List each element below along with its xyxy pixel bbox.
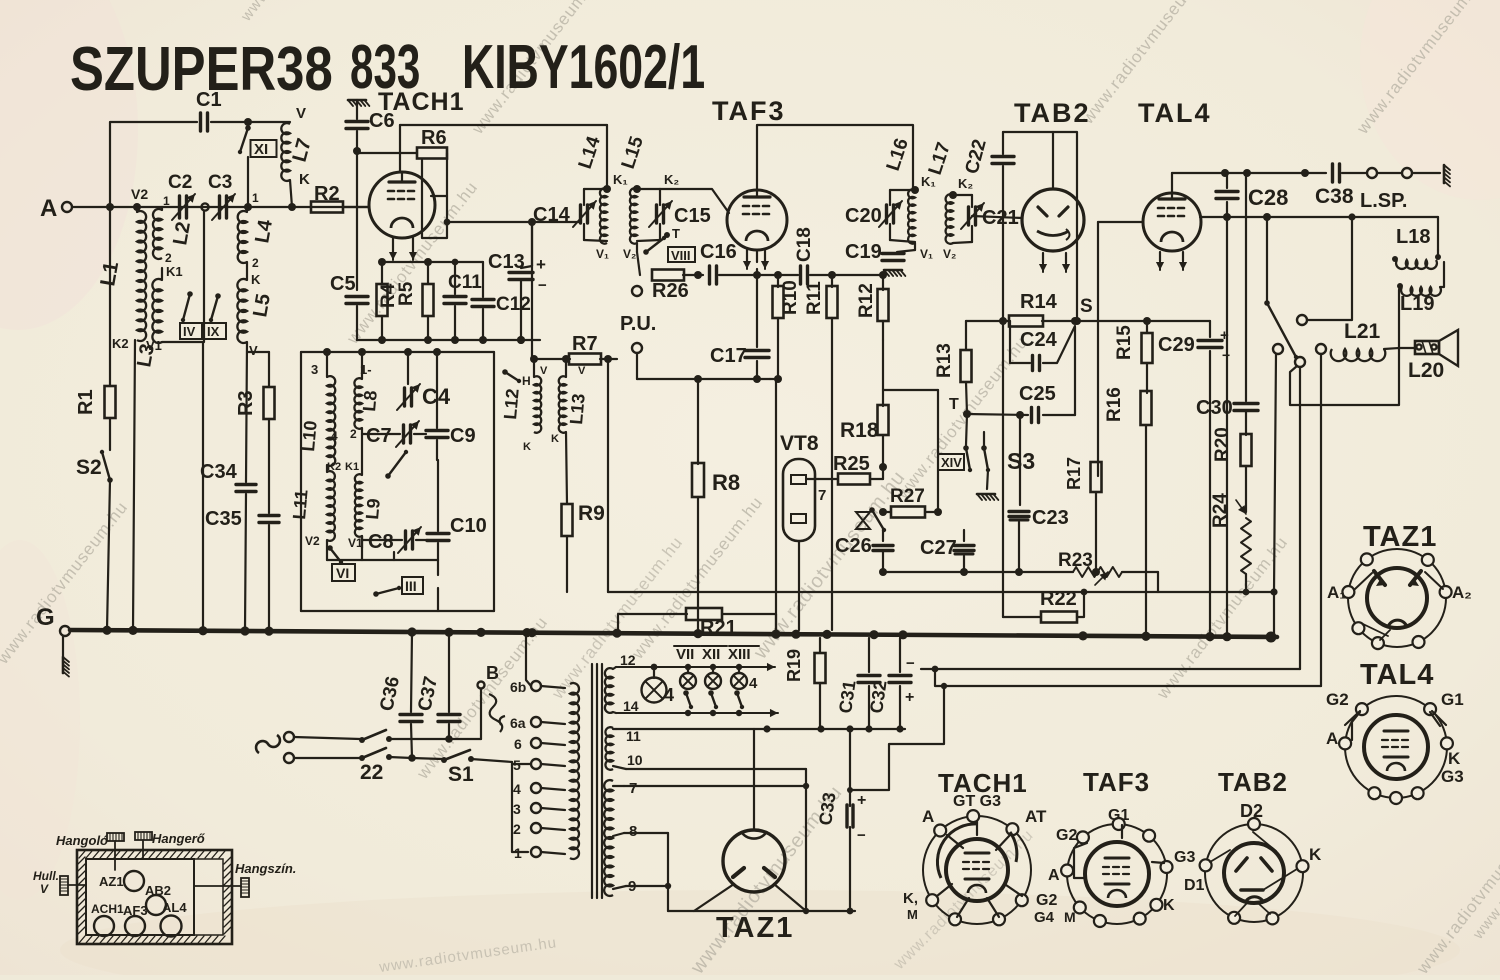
wire R6 line: [357, 152, 417, 154]
node T: [643, 226, 680, 255]
capacitor C16: [700, 241, 782, 284]
svg-text:C29: C29: [1158, 334, 1195, 356]
terminal 1: [514, 845, 565, 861]
svg-text:A₂: A₂: [1452, 583, 1472, 602]
wire TAL4 arrows: [1156, 252, 1187, 270]
svg-text:III: III: [405, 578, 417, 594]
switch X: [856, 507, 886, 532]
svg-text:AL4: AL4: [162, 900, 187, 915]
switch S2: [76, 450, 113, 630]
svg-text:2: 2: [165, 251, 172, 265]
wire L1 to bus: [133, 340, 135, 630]
svg-text:V: V: [40, 882, 49, 896]
wire S1 to terminals: [512, 762, 530, 852]
svg-text:R12: R12: [856, 283, 877, 318]
svg-text:14: 14: [623, 698, 639, 714]
svg-text:K2: K2: [112, 336, 129, 351]
svg-text:R26: R26: [652, 280, 689, 302]
svg-text:C19: C19: [845, 241, 882, 263]
svg-text:M: M: [1064, 909, 1076, 925]
svg-text:3: 3: [311, 362, 318, 377]
wire cathode network: [382, 238, 428, 262]
svg-text:C20: C20: [845, 205, 882, 227]
wire TAZ1 leads: [694, 884, 806, 911]
svg-text:R17: R17: [1064, 457, 1084, 490]
ground bus: [70, 626, 1277, 643]
capacitor C12: [428, 259, 531, 340]
wire bottom frame b: [935, 669, 1321, 689]
svg-text:+: +: [536, 255, 546, 274]
resistor R16: [1104, 387, 1152, 638]
terminal 6a: [510, 715, 565, 731]
svg-text:B: B: [486, 663, 499, 683]
svg-text:C14: C14: [533, 204, 571, 226]
capacitor C21 variable: [953, 195, 1019, 243]
terminal A: [40, 195, 107, 222]
svg-text:C30: C30: [1196, 397, 1233, 419]
capacitor C10: [427, 460, 487, 560]
resistor R21: [618, 608, 776, 639]
svg-text:K: K: [551, 433, 559, 445]
resistor R18: [840, 340, 889, 467]
inductor L2: [153, 207, 195, 279]
capacitor C26: [835, 530, 893, 576]
capacitor C18: [794, 227, 815, 284]
svg-text:1: 1: [514, 845, 522, 861]
switch speaker contact mid: [1295, 357, 1305, 669]
capacitor C13 electrolytic: [488, 222, 547, 344]
wire osc top rail: [301, 348, 494, 356]
transformer core: [592, 664, 602, 898]
capacitor C34: [200, 461, 256, 630]
socket TAL4 inner wires: [1352, 712, 1440, 740]
wire R18 top: [883, 390, 938, 512]
wire R3 branch: [247, 352, 269, 387]
svg-text:L2: L2: [169, 220, 195, 247]
wire R17 top: [1098, 222, 1143, 476]
capacitor C14 variable: [533, 189, 607, 241]
wire L21 loop: [1290, 348, 1399, 405]
svg-text:XIII: XIII: [728, 646, 751, 663]
svg-text:10: 10: [627, 752, 643, 768]
inductor L1: [96, 186, 148, 351]
inductor L17: [925, 140, 974, 261]
wire PU line to bus: [770, 379, 776, 630]
svg-text:22: 22: [360, 761, 383, 784]
wire 9 lead: [613, 883, 671, 889]
svg-text:P.U.: P.U.: [620, 313, 656, 335]
svg-text:K1: K1: [166, 264, 183, 279]
svg-text:C17: C17: [710, 345, 747, 367]
socket TAF3 label: [1083, 767, 1150, 797]
wire TAB2 top: [1003, 132, 1077, 321]
svg-text:C11: C11: [448, 272, 482, 293]
svg-text:−: −: [857, 827, 866, 844]
svg-text:2: 2: [350, 427, 357, 441]
capacitor C27: [920, 530, 974, 576]
capacitor C7 variable: [362, 421, 426, 447]
svg-text:K₂: K₂: [958, 176, 973, 191]
svg-text:S1: S1: [448, 763, 474, 786]
transformer primary: [570, 683, 579, 859]
svg-text:V₁: V₁: [596, 247, 609, 261]
svg-text:L13: L13: [566, 393, 589, 426]
switch osc: [385, 450, 408, 479]
lamp VII: [674, 646, 700, 689]
wire C30 top: [1245, 173, 1247, 401]
resistor R6: [417, 127, 447, 159]
wire mid long: [608, 589, 1087, 596]
svg-text:L5: L5: [249, 292, 275, 319]
switch VIII box: [668, 247, 695, 263]
svg-text:1: 1: [163, 194, 170, 208]
svg-text:K: K: [523, 441, 531, 453]
shaft Hull: [33, 869, 86, 896]
knob ACH1: [91, 902, 124, 936]
wire C28 to bus: [1226, 217, 1228, 638]
wire A line: [106, 203, 369, 342]
svg-text:R1: R1: [75, 389, 97, 415]
capacitor C32: [866, 638, 915, 729]
svg-text:V2: V2: [305, 534, 320, 548]
svg-text:V₂: V₂: [623, 247, 636, 261]
winding 11 10: [605, 727, 642, 770]
svg-text:−: −: [906, 655, 915, 672]
svg-text:7: 7: [629, 780, 637, 797]
svg-text:K₂: K₂: [664, 172, 679, 187]
svg-text:2: 2: [513, 821, 521, 837]
svg-text:7: 7: [818, 487, 826, 504]
switch III: [373, 577, 423, 597]
svg-text:R6: R6: [421, 127, 447, 149]
svg-text:K: K: [1448, 749, 1461, 768]
socket TAB2 label: [1218, 767, 1288, 797]
svg-text:C7: C7: [366, 425, 392, 447]
terminal 6b: [510, 679, 565, 695]
wire grid line right: [778, 271, 887, 279]
svg-text:K,: K,: [903, 890, 918, 907]
speaker L20: [1399, 330, 1458, 382]
resistor R14: [1009, 291, 1058, 327]
svg-text:L21: L21: [1344, 320, 1381, 343]
resistor R19: [784, 638, 826, 729]
terminal 4: [513, 781, 565, 797]
capacitor C31: [835, 638, 880, 729]
node T2: [949, 396, 971, 418]
resistor R24: [1210, 493, 1251, 596]
svg-text:IX: IX: [207, 324, 220, 339]
svg-text:VI: VI: [336, 565, 349, 581]
label TAZ1 main: [716, 912, 794, 944]
svg-text:TAL4: TAL4: [1360, 659, 1434, 691]
resistor R1: [75, 207, 116, 450]
svg-text:TAL4: TAL4: [1138, 98, 1212, 128]
resistor R9: [562, 432, 605, 592]
knob shaft Hangolo: [56, 833, 124, 870]
wire L5 to C34: [246, 342, 247, 482]
svg-text:C35: C35: [205, 508, 242, 530]
wire 10 lead: [613, 766, 806, 769]
capacitor C15 variable: [637, 189, 711, 241]
socket TACH1 label: [938, 768, 1028, 798]
tube TAZ1 rectifier: [723, 729, 785, 892]
svg-text:IV: IV: [183, 324, 196, 339]
svg-text:C38: C38: [1315, 185, 1354, 208]
svg-text:R8: R8: [712, 470, 740, 495]
capacitor C33 electrolytic: [815, 729, 866, 914]
capacitor C1: [196, 89, 222, 131]
svg-text:A₁: A₁: [1327, 583, 1346, 602]
svg-text:C10: C10: [450, 515, 487, 537]
switch speaker contact right: [1316, 344, 1326, 686]
knob AB2: [145, 883, 171, 915]
svg-text:5: 5: [513, 757, 521, 773]
svg-text:11: 11: [626, 728, 641, 744]
svg-text:6a: 6a: [510, 715, 526, 731]
socket TAB2: [1184, 801, 1322, 924]
svg-text:VT8: VT8: [780, 432, 819, 455]
wire TAL4 anode rail: [1200, 213, 1438, 250]
wire 6b lead: [526, 634, 531, 686]
capacitor C28: [1216, 173, 1288, 217]
svg-text:R25: R25: [833, 453, 870, 475]
svg-text:ACH1: ACH1: [91, 902, 124, 916]
svg-text:+: +: [905, 689, 914, 706]
wire L3 bottom: [162, 342, 203, 630]
lamp XII: [701, 646, 727, 689]
capacitor C9: [426, 352, 476, 460]
svg-text:TAB2: TAB2: [1218, 767, 1288, 797]
svg-text:C15: C15: [674, 205, 711, 227]
svg-text:S3: S3: [1007, 448, 1035, 474]
inductor L18: [1392, 226, 1441, 269]
switch S1: [441, 750, 512, 786]
svg-text:6b: 6b: [510, 679, 526, 695]
wire 11 line: [613, 725, 905, 732]
svg-text:−: −: [538, 277, 547, 294]
svg-text:XII: XII: [702, 646, 720, 663]
lamp XIII: [728, 646, 759, 692]
heater winding: [605, 652, 639, 714]
svg-text:VII: VII: [676, 646, 694, 663]
wire C1 rail: [110, 118, 290, 207]
svg-text:C1: C1: [196, 89, 222, 111]
svg-text:G4: G4: [1034, 909, 1055, 926]
wire grid rail: [400, 125, 607, 189]
tube TAB2: [1022, 189, 1084, 251]
capacitor C35: [205, 508, 279, 630]
svg-text:R13: R13: [934, 343, 955, 378]
svg-text:K: K: [299, 171, 310, 188]
svg-text:4: 4: [664, 685, 674, 705]
svg-text:R22: R22: [1040, 588, 1077, 610]
resistor R13: [934, 321, 972, 414]
resistor R23: [1058, 550, 1158, 585]
wire B lead: [478, 663, 506, 739]
switch VI: [327, 545, 355, 581]
lamp main: [642, 667, 675, 705]
svg-text:C6: C6: [369, 110, 395, 132]
svg-text:D2: D2: [1240, 801, 1263, 821]
svg-text:C9: C9: [450, 425, 476, 447]
svg-text:−: −: [1222, 347, 1230, 363]
svg-text:T: T: [949, 396, 959, 413]
wire plate loop: [422, 153, 580, 238]
terminal PU top: [620, 286, 656, 335]
svg-text:GT G3: GT G3: [953, 793, 1001, 810]
svg-text:C16: C16: [700, 241, 737, 263]
svg-text:G: G: [36, 604, 55, 631]
inductor L16: [883, 136, 936, 261]
socket TAL4: [1326, 690, 1464, 804]
svg-text:R27: R27: [890, 486, 925, 507]
inductor L15: [618, 134, 680, 261]
svg-text:L20: L20: [1408, 359, 1444, 382]
svg-text:R18: R18: [840, 419, 879, 442]
resistor R7: [569, 333, 601, 365]
svg-text:4: 4: [513, 781, 521, 797]
svg-text:K₁: K₁: [613, 172, 628, 187]
capacitor C36: [376, 632, 422, 758]
switch IX: [204, 293, 226, 339]
wire 8 lead: [613, 833, 668, 911]
svg-text:V₂: V₂: [943, 247, 956, 261]
svg-text:4: 4: [331, 429, 338, 443]
svg-text:AT: AT: [1025, 807, 1047, 826]
svg-text:+: +: [857, 792, 866, 809]
svg-text:R9: R9: [578, 502, 605, 525]
winding 789: [604, 780, 637, 896]
wire mains squiggle: [256, 732, 294, 763]
inductor L21: [1331, 320, 1399, 361]
svg-text:AF3: AF3: [123, 903, 148, 918]
svg-text:S2: S2: [76, 456, 102, 479]
svg-text:R16: R16: [1104, 387, 1125, 422]
svg-text:C25: C25: [1019, 383, 1056, 405]
knob AL4: [161, 900, 188, 937]
socket TAL4 label: [1360, 659, 1434, 691]
svg-text:G3: G3: [1441, 767, 1464, 786]
capacitor C6: [346, 110, 395, 155]
inductor L3: [133, 268, 162, 369]
svg-text:C18: C18: [794, 227, 815, 262]
control panel chassis: [77, 850, 232, 944]
svg-text:D1: D1: [1184, 877, 1205, 894]
svg-text:R19: R19: [784, 649, 804, 682]
terminal 6: [514, 736, 565, 752]
tube TAF3: [727, 190, 787, 250]
capacitor C30: [1196, 397, 1258, 419]
wire TAB2 arrows: [1039, 253, 1070, 272]
wire bottom frame a: [921, 666, 1300, 673]
terminal LSP 1: [1360, 168, 1407, 212]
svg-text:R5: R5: [396, 281, 417, 306]
wire TAF3 arrows: [743, 250, 769, 269]
svg-text:G2: G2: [1326, 690, 1349, 709]
switch speaker contact left: [1270, 344, 1283, 635]
svg-text:C2: C2: [168, 172, 192, 193]
capacitor C22: [962, 132, 1014, 617]
inductor L11: [289, 471, 335, 548]
resistor R22: [1003, 588, 1274, 623]
wire TAF3 top rail: [757, 125, 913, 190]
svg-text:S: S: [1080, 296, 1093, 317]
svg-text:V2: V2: [131, 186, 148, 202]
capacitor C24: [1010, 321, 1075, 371]
inductor L14: [575, 134, 628, 261]
svg-text:XIV: XIV: [941, 455, 962, 470]
terminal LSP 2: [1378, 168, 1440, 178]
label TAF3: [712, 96, 786, 126]
wire V2 to R26: [637, 243, 640, 275]
shaft Hangszin: [194, 861, 296, 897]
label S3: [1007, 448, 1035, 474]
svg-text:C23: C23: [1032, 507, 1069, 529]
svg-text:R24: R24: [1210, 493, 1231, 528]
svg-text:R10: R10: [780, 280, 801, 315]
svg-text:C34: C34: [200, 461, 238, 483]
svg-text:C12: C12: [496, 294, 531, 315]
svg-text:KIBY1602/1: KIBY1602/1: [462, 33, 705, 102]
svg-text:VIII: VIII: [671, 248, 691, 263]
svg-text:L18: L18: [1396, 226, 1430, 248]
svg-text:Hull.: Hull.: [33, 869, 59, 883]
capacitor C38: [1315, 164, 1366, 208]
svg-text:8: 8: [629, 823, 637, 840]
capacitor C23: [1009, 507, 1069, 576]
resistor R15: [1114, 321, 1153, 393]
ground XIV: [977, 470, 998, 500]
wire TAB2 grid: [972, 216, 1022, 218]
svg-text:L4: L4: [251, 217, 277, 245]
capacitor C29: [1147, 321, 1230, 638]
resistor R8: [692, 379, 740, 631]
svg-text:3: 3: [513, 801, 521, 817]
svg-text:G3: G3: [1174, 849, 1195, 866]
svg-text:Hangerő: Hangerő: [152, 831, 206, 846]
svg-text:6: 6: [514, 736, 522, 752]
svg-text:Hangoló: Hangoló: [56, 833, 108, 848]
svg-text:Hangszín.: Hangszín.: [235, 861, 296, 876]
socket TACH1: [903, 793, 1057, 926]
capacitor C2 variable: [163, 172, 195, 220]
inductor L10: [298, 352, 341, 473]
capacitor C8 variable: [362, 527, 427, 553]
switch speaker lever: [1264, 217, 1298, 359]
wire C23 branch: [1019, 415, 1021, 505]
label TAB2: [1014, 98, 1091, 128]
resistor R3: [235, 387, 275, 513]
svg-text:L8: L8: [359, 390, 381, 413]
terminal 5: [513, 757, 565, 773]
svg-text:L11: L11: [289, 489, 312, 521]
resistor R5: [396, 258, 434, 340]
tube TACH1: [369, 88, 464, 238]
socket TAZ1 label: [1363, 521, 1437, 553]
wire osc left rail: [300, 352, 302, 611]
svg-text:V₁: V₁: [920, 247, 933, 261]
svg-text:R7: R7: [572, 333, 598, 355]
label TAL4: [1138, 98, 1212, 128]
wire frame loop: [847, 686, 944, 793]
knob AF3: [123, 903, 148, 936]
capacitor C11: [444, 262, 482, 340]
inductor L19: [1397, 262, 1444, 348]
svg-text:T: T: [672, 226, 680, 241]
svg-text:XI: XI: [254, 141, 268, 158]
svg-text:M: M: [907, 907, 918, 922]
switch speaker contact top: [1297, 213, 1356, 325]
